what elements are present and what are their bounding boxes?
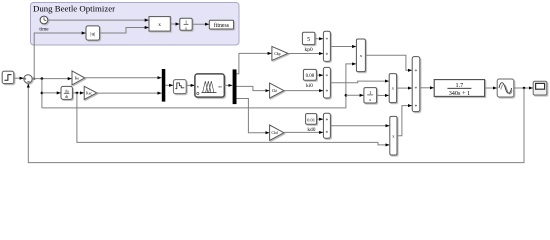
wire kd product to final add [397, 106, 412, 136]
svg-text:s: s [185, 25, 187, 30]
final add [412, 57, 420, 112]
wire kd add to kd product [330, 125, 389, 127]
transport delay [497, 79, 514, 97]
constant 0.08 [303, 69, 316, 80]
wire abs to product [100, 28, 149, 34]
svg-text:Cki: Cki [272, 89, 277, 93]
subsystem panel Dung Beetle Optimizer [31, 3, 240, 46]
wire feedback to sum [28, 84, 524, 163]
svg-text:|u|: |u| [90, 31, 95, 37]
svg-text:kd0: kd0 [307, 127, 315, 133]
wire delay to scope [514, 87, 533, 89]
svg-text:0.08: 0.08 [306, 74, 315, 79]
sum block [24, 75, 32, 83]
product ki [389, 74, 396, 103]
wire integrator to fitness [192, 23, 209, 25]
wire de/dt long to kd product [77, 93, 390, 145]
svg-text:kp0: kp0 [305, 47, 313, 53]
gain Ckd [270, 125, 284, 140]
transfer fcn 1.7 over 340s+1 [434, 80, 484, 97]
wire demux2 to Cki [237, 86, 270, 90]
svg-text:Ckd: Ckd [272, 131, 278, 135]
svg-text:340s + 1: 340s + 1 [449, 90, 470, 97]
wire mux to rate block [165, 84, 173, 86]
add kd [323, 113, 330, 138]
node de/dt branch [76, 92, 79, 95]
add ki [323, 67, 330, 98]
wire e tap up into panel to abs [33, 77, 35, 79]
wire e to derivative [42, 92, 61, 94]
wire e sum to Ke [32, 78, 71, 80]
wire const008 to ki add [316, 74, 323, 76]
mux [162, 69, 166, 102]
clock block [40, 16, 48, 24]
node e derivative branch [41, 92, 44, 95]
svg-text:ki0: ki0 [306, 83, 313, 89]
derivative du/dt [61, 86, 72, 99]
wire demux3 to Ckd [237, 99, 270, 133]
wire e to integrator main [346, 94, 364, 96]
svg-text:s: s [369, 97, 371, 102]
wire kp add to kp product [330, 46, 356, 48]
product kp [356, 39, 365, 72]
gain Ke [72, 71, 85, 85]
gain Ckp [272, 46, 288, 60]
wire Ckp to kp add [288, 53, 323, 55]
abs block |u| [86, 26, 100, 40]
svg-text:Ke: Ke [75, 76, 80, 80]
wire ki product to final add [397, 87, 412, 89]
product block x DBO [149, 17, 170, 32]
wire const001 to kd add [316, 118, 323, 120]
svg-text:fitness: fitness [214, 22, 230, 29]
svg-text:Dung Beetle Optimizer: Dung Beetle Optimizer [33, 3, 115, 13]
wire transfer fcn to delay [485, 87, 497, 89]
product kd [390, 116, 397, 155]
wire kp product to final add [365, 55, 412, 70]
wire Ke to mux [85, 77, 162, 79]
wire e branch down [41, 79, 43, 108]
wire ki add to ki product [330, 81, 389, 83]
node e to integrator [345, 94, 348, 97]
svg-text:time: time [39, 27, 49, 33]
step block [2, 71, 14, 83]
wire demux1 to Ckp [237, 53, 272, 73]
gain Cki [270, 83, 284, 98]
node e branch [41, 77, 44, 80]
wire derivative to Kec [72, 92, 84, 94]
scope [533, 81, 547, 95]
wire final add to transfer fcn [420, 87, 434, 89]
svg-text:0.01: 0.01 [307, 117, 316, 122]
wire Kec to mux [97, 92, 162, 94]
svg-text:out: out [218, 84, 222, 88]
rate transition block [173, 80, 186, 94]
wire integrator to ki product [377, 94, 389, 96]
wire rate block to fuzzy [186, 84, 194, 86]
gain Kec [84, 86, 97, 99]
wire e long to kp product and integrator [42, 64, 356, 108]
integrator 1/s DBO [180, 18, 192, 30]
wire fuzzy to demux [224, 84, 232, 86]
svg-text:Kec: Kec [86, 91, 92, 95]
wire Ckd to kd add [284, 131, 323, 133]
integrator 1/s main [364, 88, 377, 103]
fitness block [209, 20, 233, 29]
constant 0.01 [306, 114, 317, 125]
constant 5 [302, 32, 315, 44]
wire Cki to ki add [284, 90, 323, 92]
node output feedback [523, 87, 526, 90]
wire const5 to kp add [315, 38, 323, 40]
fuzzy logic controller [195, 74, 224, 97]
wire step to sum [14, 77, 24, 79]
demux [233, 69, 237, 104]
svg-text:Ckp: Ckp [274, 52, 280, 56]
add kp [323, 31, 330, 61]
svg-text:5: 5 [307, 37, 310, 43]
svg-text:x: x [158, 22, 161, 28]
wire product to integrator DBO [170, 23, 179, 25]
wire clock to product [48, 19, 149, 21]
